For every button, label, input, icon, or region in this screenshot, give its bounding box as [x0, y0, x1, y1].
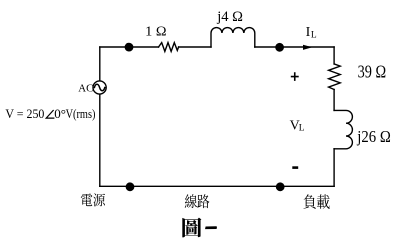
- AC source U1 (circle): [93, 81, 106, 94]
- svg-text:0°: 0°: [54, 106, 66, 121]
- label fu-zai (load): [303, 194, 315, 209]
- wire left vertical: bottom segment below AC source: [99, 94, 101, 186]
- svg-text:AC: AC: [78, 83, 93, 95]
- label xian-lu (line): [185, 194, 197, 208]
- svg-text:V(rms): V(rms): [66, 106, 96, 121]
- svg-text:j4 Ω: j4 Ω: [216, 9, 243, 25]
- svg-text:1 Ω: 1 Ω: [145, 24, 166, 39]
- plus sign: [291, 72, 299, 81]
- inductor L j4ohm (horizontal coil, 4 humps): [211, 28, 255, 47]
- svg-text:L: L: [311, 30, 317, 40]
- wire: inductor to bottom-right corner: [333, 149, 335, 187]
- wire bottom: [100, 185, 334, 187]
- node dot: bottom left junction: [126, 182, 135, 191]
- svg-text:39 Ω: 39 Ω: [358, 61, 387, 81]
- wire top: source node to resistor: [100, 46, 159, 48]
- wire: inductor to load node / top-right corner: [255, 46, 334, 48]
- minus sign: [292, 166, 298, 169]
- label dian-yuan (power source): [81, 193, 93, 206]
- wire right vertical: corner to resistor: [333, 47, 335, 64]
- angle symbol: [46, 110, 54, 118]
- node dot: top right junction: [275, 43, 284, 52]
- resistor R 1ohm (horizontal zigzag): [159, 43, 179, 52]
- svg-text:L: L: [299, 124, 305, 134]
- svg-text:j26 Ω: j26 Ω: [356, 127, 390, 146]
- caption yi (One): [205, 226, 217, 229]
- node dot: bottom right junction: [276, 182, 285, 191]
- AC source sine wave: [94, 84, 104, 90]
- resistor R 39ohm (vertical zigzag): [329, 64, 341, 90]
- node dot: top left junction: [125, 43, 134, 52]
- wire: 39ohm resistor to j26ohm inductor: [333, 90, 335, 111]
- caption tu (Figure): [182, 218, 201, 238]
- wire left vertical: top segment above AC source: [99, 47, 101, 81]
- current arrow IL (triangle): [303, 45, 312, 50]
- wire: resistor to inductor: [179, 46, 211, 48]
- inductor L j26ohm (vertical coil, 3 humps): [334, 110, 352, 148]
- svg-text:V = 250: V = 250: [5, 106, 44, 121]
- svg-text:I: I: [306, 25, 311, 40]
